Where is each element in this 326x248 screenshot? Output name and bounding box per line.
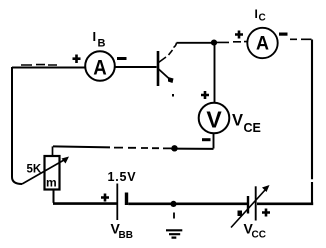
ground stem dash: [173, 213, 175, 219]
wire: pot bottom stem: [53, 190, 55, 203]
wire: collector hook up to horizontal collector rail: [174, 43, 177, 48]
wire: bottom rail from VCC to bottom-right corner: [257, 203, 313, 206]
wire: pot top stem: [52, 146, 54, 156]
svg-text:1.5V: 1.5V: [108, 170, 137, 184]
transistor Q1 collector lead (partly dashed): [159, 57, 167, 63]
wire: mid horizontal rail from pot top to voltmeter stem: [53, 146, 110, 147]
svg-text:A: A: [93, 57, 107, 80]
wire: bottom rail from VBB to VCC battery: [128, 203, 247, 206]
wire: dashed rail junction to ammeter IC: [217, 41, 248, 44]
wire: bottom rail from pot to battery VBB: [53, 202, 117, 205]
plus sign of A1: [73, 55, 81, 64]
plus sign of VCC: [262, 209, 270, 217]
svg-text:I: I: [255, 7, 258, 21]
wire: vertical from junction down to voltmeter: [214, 43, 216, 103]
node: emitter junction dot on mid rail: [171, 145, 177, 151]
wire: right vertical wire down to bottom rail (with scan gap): [311, 40, 313, 204]
svg-text:CE: CE: [244, 121, 261, 135]
voltmeter V1 (VCE) circle: [199, 103, 230, 134]
wire: left vertical wire down to pot wiper: [12, 67, 22, 184]
transistor Q1 base bar: [157, 51, 160, 86]
wiper arrowhead: [62, 157, 70, 164]
svg-text:V: V: [232, 112, 243, 130]
plus sign of V1: [201, 91, 209, 99]
scan dot below emitter: [172, 94, 174, 97]
potentiometer R1 body (5K): [45, 156, 60, 190]
minus sign of A1: [117, 57, 127, 60]
battery VCC positive long plate: [255, 186, 257, 220]
wire: potentiometer wiper arm diagonal: [22, 160, 64, 184]
battery VCC negative short plate: [247, 196, 249, 214]
wire: collector rail to junction: [177, 42, 215, 44]
svg-text:5K: 5K: [27, 164, 42, 176]
transistor Q1 emitter lead: [159, 69, 170, 79]
svg-text:B: B: [98, 37, 106, 49]
plus sign of A2: [235, 31, 243, 39]
minus sign of V1: [202, 138, 211, 141]
svg-text:CC: CC: [252, 230, 266, 241]
battery VBB negative short plate: [125, 193, 128, 206]
wire: ammeter A1 to transistor base: [115, 66, 157, 68]
minus sign of A2: [279, 33, 288, 36]
svg-text:BB: BB: [119, 230, 133, 241]
svg-text:A: A: [256, 33, 269, 55]
battery VBB positive long plate: [116, 184, 118, 221]
node: ground junction dot: [170, 201, 176, 207]
minus sign of VCC: [238, 211, 243, 217]
wire: voltmeter bottom stem: [213, 133, 215, 148]
svg-text:I: I: [93, 29, 97, 44]
wire: dashed from A2 right to top-right corner: [290, 38, 312, 40]
ammeter A1 (IB meter) circle: [85, 51, 115, 81]
wire: top-left horizontal from left corner to ammeter IB: [12, 67, 85, 69]
wire: scan speckles above base wire: [21, 64, 57, 66]
plus sign of VBB: [101, 194, 109, 202]
transistor Q1 emitter arrowhead: [168, 77, 174, 83]
node: collector junction dot: [211, 40, 217, 46]
ammeter A2 (IC meter) circle: [247, 28, 277, 58]
svg-text:C: C: [259, 13, 266, 24]
svg-text:m: m: [46, 176, 57, 190]
battery VCC variable arrow: [231, 190, 266, 228]
ground symbol: [166, 230, 182, 237]
svg-text:V: V: [206, 107, 222, 133]
